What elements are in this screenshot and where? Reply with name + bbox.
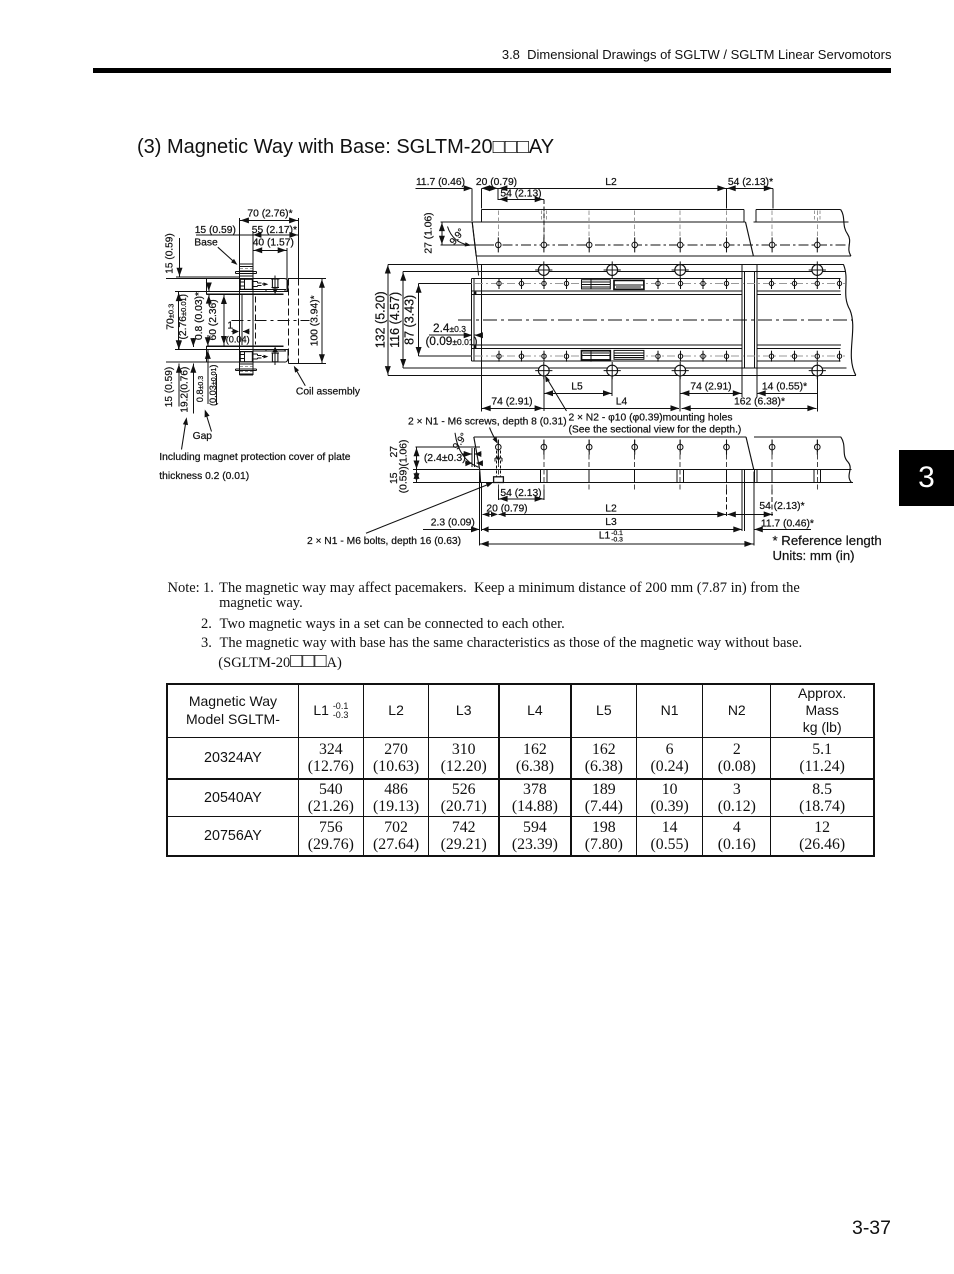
top view: wavy break at right end [841, 210, 851, 257]
top view: hidden hole lines [497, 211, 499, 240]
svg-text:2 × N2 - φ10 (φ0.39)mounting h: 2 × N2 - φ10 (φ0.39)mounting holes [569, 413, 733, 424]
dim L1 bottom [480, 543, 754, 545]
dim 20 (0.79) top [481, 185, 490, 191]
svg-text:40 (1.57): 40 (1.57) [253, 237, 294, 248]
svg-text:74 (2.91): 74 (2.91) [690, 381, 731, 392]
svg-text:L2: L2 [605, 177, 617, 188]
dim 54 (2.13)* top [727, 187, 773, 189]
dim 11.7 (0.46)* bottom [754, 526, 763, 532]
svg-text:(See the sectional view for th: (See the sectional view for the depth.) [569, 425, 742, 436]
plan view: magnet slot blocks bottom [582, 351, 611, 360]
dim 11.7 (0.46) top [416, 187, 472, 189]
plan view: top strip screw holes [497, 278, 501, 289]
svg-text:L5: L5 [571, 381, 583, 392]
svg-text:(0.59): (0.59) [398, 466, 409, 493]
left view: coil assembly hidden outline [288, 279, 290, 364]
svg-text:(0.04): (0.04) [226, 334, 250, 344]
svg-text:54 (2.13)*: 54 (2.13)* [759, 501, 804, 512]
bottom view: joint hidden lines [741, 470, 743, 483]
label N2 mounting holes [546, 377, 567, 411]
svg-text:54 (2.13): 54 (2.13) [500, 188, 541, 199]
technical drawing [0, 165, 954, 565]
dim L2 top [498, 187, 726, 189]
bottom view: body outline [474, 436, 746, 438]
svg-text:132 (5.20): 132 (5.20) [373, 291, 387, 348]
svg-text:19.2(0.76): 19.2(0.76) [179, 367, 190, 413]
top view: raised strip segment 1 [481, 210, 483, 223]
plan view: top magnet strip [471, 279, 473, 292]
left view: bottom clamp screw [272, 353, 278, 362]
svg-text:Gap: Gap [193, 431, 213, 442]
svg-text:70±0.3: 70±0.3 [165, 304, 176, 330]
svg-text:0.8±0.3: 0.8±0.3 [195, 376, 205, 402]
svg-text:(1.06): (1.06) [398, 440, 409, 467]
svg-text:11.7 (0.46): 11.7 (0.46) [416, 177, 465, 188]
svg-text:27 (1.06): 27 (1.06) [424, 212, 435, 253]
angle 9.9 deg bottom [455, 433, 479, 468]
left view: top clamp screw [272, 279, 278, 288]
top view: screw hole centerline [440, 244, 484, 246]
dim 54 (2.13)* bottom [727, 511, 736, 517]
notes block [168, 581, 200, 596]
left view: top flange [207, 278, 285, 280]
svg-text:Units: mm (in): Units: mm (in) [773, 548, 855, 563]
dim 14 (0.55)* [757, 390, 766, 396]
dim 54 (2.13) top [498, 198, 544, 200]
bottom view: screw holes row [416, 446, 481, 448]
bottom view: bolt hole hidden lines [540, 470, 542, 483]
svg-text:L3: L3 [605, 517, 617, 528]
dim 162 (6.38)* [682, 407, 817, 409]
svg-text:15 (0.59): 15 (0.59) [165, 233, 176, 273]
dim 74 (2.91) left row B [482, 407, 544, 409]
svg-text:Coil assembly: Coil assembly [296, 387, 361, 398]
svg-text:15 (0.59): 15 (0.59) [195, 225, 236, 236]
svg-text:thickness 0.2 (0.01): thickness 0.2 (0.01) [159, 471, 249, 482]
svg-text:74 (2.91): 74 (2.91) [491, 396, 532, 407]
plan bottom dims row A [543, 375, 545, 411]
left view: base section hatch bottom [240, 374, 253, 376]
svg-text:2 × N1 - M6 bolts, depth 16 (0: 2 × N1 - M6 bolts, depth 16 (0.63) [307, 536, 461, 547]
svg-text:162 (6.38)*: 162 (6.38)* [734, 396, 785, 407]
dimension table [166, 683, 875, 858]
svg-text:-0.3: -0.3 [611, 536, 623, 543]
left view: center axis [232, 319, 310, 321]
plan view: wavy break right end [843, 264, 855, 375]
svg-text:L4: L4 [616, 396, 628, 407]
plan view: outer body [482, 263, 844, 265]
angle 9.9 deg top [448, 227, 470, 246]
svg-text:Base: Base [194, 237, 218, 248]
svg-text:15 (0.59): 15 (0.59) [164, 367, 175, 407]
svg-text:2.4±0.3: 2.4±0.3 [433, 321, 466, 335]
page header text [502, 47, 892, 62]
plan view: top strip centerline [459, 283, 845, 285]
top view: screw holes row [496, 237, 502, 252]
left view: bottom flange [207, 361, 285, 363]
svg-text:14 (0.55)*: 14 (0.55)* [762, 381, 807, 392]
svg-text:2 × N1 - M6 screws, depth 8 (: 2 × N1 - M6 screws, depth 8 (0.31) [408, 417, 567, 428]
svg-text:70 (2.76)*: 70 (2.76)* [247, 208, 292, 219]
svg-text:(0.09±0.01): (0.09±0.01) [425, 334, 477, 348]
chapter tab [899, 450, 954, 506]
dim L5 [544, 392, 612, 394]
top view: raised strip segment 2 [755, 210, 757, 223]
svg-text:20 (0.79): 20 (0.79) [476, 177, 517, 188]
svg-text:* Reference length: * Reference length [773, 533, 882, 548]
plan view: mounting holes [535, 261, 552, 278]
left view: top bolt detail [240, 279, 252, 289]
dim 74 (2.91) right [680, 392, 742, 394]
plan view: bottom magnet strip [471, 348, 473, 361]
svg-text:116 (4.57): 116 (4.57) [388, 292, 402, 348]
section title [137, 136, 554, 159]
bottom view: wavy break right end [841, 437, 852, 483]
svg-text:(2.4±0.3): (2.4±0.3) [424, 452, 466, 464]
dim L4 [544, 407, 679, 409]
svg-text:54 (2.13)*: 54 (2.13)* [728, 177, 773, 188]
svg-text:L1: L1 [599, 530, 611, 541]
plan view: bottom strip screw holes [497, 351, 501, 362]
svg-text:60 (2.36): 60 (2.36) [208, 299, 219, 340]
svg-text:100 (3.94)*: 100 (3.94)* [310, 295, 321, 346]
dim L3 bottom [482, 528, 743, 530]
left view: bottom bolt detail [240, 352, 252, 362]
plan view: magnet slot blocks top [582, 280, 611, 289]
dim L2 bottom [498, 513, 726, 515]
dim 87 (3.43) left rotated [419, 283, 472, 285]
svg-text:2.3 (0.09): 2.3 (0.09) [431, 517, 475, 528]
svg-text:87 (3.43): 87 (3.43) [403, 295, 417, 345]
page number [852, 1217, 891, 1240]
page header rule [93, 68, 891, 73]
left view: base section hatch top [240, 263, 253, 265]
svg-text:0.8 (0.03)*: 0.8 (0.03)* [194, 292, 205, 340]
plan view: joint lines [741, 264, 743, 375]
svg-text:L2: L2 [605, 503, 617, 514]
bottom view: M6 bolt detail at first hole [495, 451, 497, 478]
dim 116 (4.57) left rotated [403, 271, 481, 273]
svg-text:9.9°: 9.9° [451, 431, 470, 452]
plan view: bottom strip centerline [459, 355, 845, 357]
left view: way column [239, 264, 241, 375]
svg-text:Including magnet protection co: Including magnet protection cover of pla… [159, 452, 350, 463]
svg-text:11.7 (0.46)*: 11.7 (0.46)* [761, 518, 814, 529]
plan view: center axis line [458, 319, 852, 321]
plan view: inner 116 lines [482, 271, 846, 273]
dim 132 (5.20) left rotated [388, 263, 482, 265]
top view: body outline [440, 221, 745, 223]
